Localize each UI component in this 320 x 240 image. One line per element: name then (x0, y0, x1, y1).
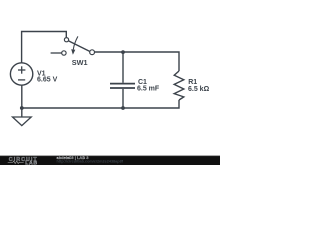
switch SW1 blade (68, 41, 90, 52)
node junction top at C1 (121, 50, 125, 54)
switch SW1 common terminal (90, 50, 95, 55)
wire top-left from V1 to SW1 (22, 32, 67, 64)
switch SW1 top terminal (64, 38, 68, 42)
svg-text:6.65 V: 6.65 V (37, 77, 58, 84)
capacitor C1 bottom plate (110, 87, 135, 89)
V1 plus sign (18, 69, 25, 71)
node junction bottom at C1 (121, 106, 125, 110)
wire R1 bottom to corner (22, 100, 179, 108)
svg-text:R1: R1 (188, 79, 197, 86)
svg-text:SW1: SW1 (72, 58, 88, 67)
svg-text:LAB: LAB (25, 160, 38, 165)
wire C1 bottom (122, 89, 124, 108)
ground (13, 117, 32, 126)
V1 minus sign (18, 79, 25, 81)
wire C1 top (122, 52, 124, 83)
node junction bottom at V1 (20, 106, 24, 110)
switch SW1 left throw terminal (62, 51, 66, 55)
capacitor C1 top plate (110, 83, 135, 85)
footer logo wire squiggle (8, 161, 24, 163)
svg-text:http://circuitlab.com/c/2m2e24: http://circuitlab.com/c/2m2e2438ap8f (57, 160, 124, 164)
wire V1 bottom to ground (21, 85, 23, 117)
switch SW1 unused throw stub (51, 52, 62, 54)
switch SW1 actuator arrow (73, 36, 78, 49)
svg-text:6.5 mF: 6.5 mF (137, 85, 160, 92)
resistor R1 zigzag (174, 71, 184, 100)
footer bar (0, 156, 220, 165)
wire top from SW1 to R1 (94, 52, 179, 71)
svg-text:6.5 kΩ: 6.5 kΩ (188, 86, 210, 93)
voltage source V1 body (10, 63, 32, 85)
